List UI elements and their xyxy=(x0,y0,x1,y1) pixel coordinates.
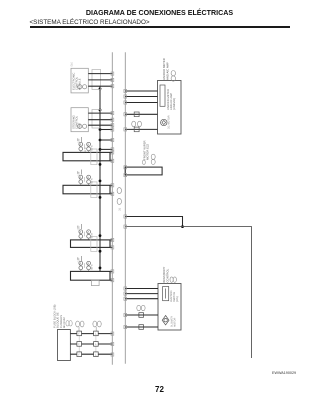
connector squares R1 at trunk xyxy=(124,166,127,177)
U2 inner text xyxy=(170,290,179,302)
wire M2 pin2 xyxy=(88,119,112,121)
svg-text:DC MOTOR: DC MOTOR xyxy=(168,115,171,129)
M2 symbol circles xyxy=(78,124,82,128)
U2 motor symbol xyxy=(162,316,169,325)
wire U2 pin5 xyxy=(125,326,158,328)
U1 label above xyxy=(162,58,169,80)
svg-text:AND A/C AMP: AND A/C AMP xyxy=(165,62,169,80)
connector squares G2 at trunk xyxy=(111,184,114,196)
connector squares G3 at trunk xyxy=(111,238,114,249)
wire U2 pin2 xyxy=(125,293,158,295)
G2 connector bracket xyxy=(91,182,97,198)
svg-text:W B: W B xyxy=(84,147,87,152)
connector squares G4 at trunk xyxy=(111,270,114,282)
junction dot branch A xyxy=(181,225,184,228)
R1 label above xyxy=(142,140,149,160)
svg-text:SB W: SB W xyxy=(91,263,94,270)
wire U1 pin5 xyxy=(125,128,157,130)
inline connector on U1 pin5 xyxy=(134,127,139,132)
page number xyxy=(0,385,319,394)
unit U1 combination meter box xyxy=(158,81,182,135)
G1 sensor circles xyxy=(76,137,93,152)
component M1 control unit box xyxy=(71,68,88,93)
fuse squares row2 xyxy=(77,342,98,347)
fuse block label xyxy=(53,304,66,328)
G3 stub label xyxy=(80,224,82,229)
fuse block ovals xyxy=(66,321,69,326)
svg-text:(ON): (ON) xyxy=(176,296,179,302)
wire ground tap below M2 xyxy=(100,129,112,131)
junction dots on daisy-chain xyxy=(99,87,102,269)
G1 bus bar box xyxy=(63,152,110,160)
svg-text:E22: E22 xyxy=(78,171,81,176)
G3 sensor circles xyxy=(76,225,93,240)
wire G1 top edge xyxy=(110,151,112,153)
U1 inner connector rect xyxy=(160,85,165,106)
wire G4 bottom edge xyxy=(110,279,112,281)
wire G2 bottom edge xyxy=(110,193,112,195)
wire M1 pin1 xyxy=(88,73,112,75)
svg-text:CONTROL: CONTROL xyxy=(165,268,169,282)
R1 ovals xyxy=(151,154,155,159)
G2 sensor circles xyxy=(76,170,93,185)
ovals between U1 pin4 and pin5 xyxy=(132,121,136,127)
ground daisy-chain line xyxy=(99,86,101,271)
U2 inner switch rect xyxy=(163,287,169,301)
G1 stub label xyxy=(80,137,82,142)
G4 bus bar box xyxy=(71,271,111,280)
connector squares U1 at trunk xyxy=(124,89,127,131)
header rule xyxy=(30,26,290,28)
svg-text:MOTOR E22: MOTOR E22 xyxy=(146,143,150,160)
fuse squares row3 xyxy=(77,352,98,357)
wire M2 pin3 xyxy=(88,124,112,126)
relay R1 box xyxy=(125,167,162,175)
wire G1 bottom edge xyxy=(110,160,112,162)
U1 buzzer symbol xyxy=(161,119,167,125)
inline connector on U1 pin4 xyxy=(134,112,139,117)
subtitle xyxy=(30,19,150,26)
fuse row 1 wire xyxy=(70,333,112,335)
document code xyxy=(272,371,296,375)
fuse block bracket xyxy=(58,330,71,361)
connector squares U2 at trunk xyxy=(124,287,127,329)
wire G1 tap1 xyxy=(100,139,112,141)
wire branch B to page link xyxy=(125,227,251,358)
svg-text:E24: E24 xyxy=(78,258,81,263)
inline connector on pin4 xyxy=(139,313,144,318)
U1 buzzer text xyxy=(168,115,171,129)
G3 connector bracket xyxy=(91,237,97,252)
M1 symbol circles xyxy=(78,85,82,89)
wire M1 pin2 xyxy=(88,79,112,81)
connector squares M2 at trunk xyxy=(111,112,114,132)
component M2 control unit box xyxy=(71,108,88,132)
fuse F2 ovals xyxy=(93,321,97,327)
M2 connector bracket xyxy=(92,110,101,129)
wire U1 pin1 xyxy=(125,90,157,92)
fuse column link lines xyxy=(78,333,80,356)
G4 stub label xyxy=(80,256,82,261)
G4 sensor circles xyxy=(76,256,93,271)
U2 motor text xyxy=(171,316,177,327)
trunk harness line E (left bus) xyxy=(111,52,113,365)
title xyxy=(0,9,319,17)
svg-text:E23: E23 xyxy=(78,226,81,231)
svg-text:E21: E21 xyxy=(78,138,81,143)
wire U2 pin3 xyxy=(125,298,158,300)
G4 sub connector box xyxy=(91,280,99,285)
wire branch A xyxy=(125,217,182,227)
wire U1 pin4 xyxy=(125,113,157,115)
net label ovals between trunks xyxy=(117,188,121,194)
wire G4 top edge xyxy=(110,270,112,272)
svg-text:31: 31 xyxy=(118,207,121,210)
G2 stub label xyxy=(80,170,82,175)
connector squares G1 at trunk xyxy=(111,138,114,162)
wire G3 bottom edge xyxy=(110,246,112,248)
wire U1 pin3 xyxy=(125,102,157,104)
unit U2 blower unit box xyxy=(158,284,181,331)
U1 inner text xyxy=(167,89,176,110)
wire G2 top edge xyxy=(110,184,112,186)
svg-text:E10: E10 xyxy=(71,61,74,66)
fuse F1 ovals xyxy=(76,321,80,327)
wire G1 tap2 xyxy=(100,148,112,150)
trunk harness line F (right bus) xyxy=(124,52,126,363)
M2 label text xyxy=(73,115,82,129)
connector squares M1 at trunk xyxy=(111,72,114,88)
svg-text:(UNIDAD): (UNIDAD) xyxy=(173,98,176,110)
wire G3 top edge xyxy=(110,239,112,241)
ovals above inline connector xyxy=(137,305,141,310)
fuse row 3 wire xyxy=(70,353,112,355)
connector squares branches at trunk xyxy=(124,215,127,228)
inline connector on pin5 xyxy=(139,325,144,330)
wire M2 pin1 xyxy=(88,112,112,114)
wire U2 pin4 xyxy=(125,314,158,316)
G2 bus bar box xyxy=(63,185,110,194)
connector squares fuse rows at trunk xyxy=(111,332,114,356)
M1 label text xyxy=(73,73,82,90)
M1 connector bracket xyxy=(92,70,101,90)
fuse glyphs xyxy=(78,333,97,357)
wire M1 pin3 xyxy=(88,85,112,87)
wire U1 pin2 xyxy=(125,96,157,98)
G3 bus bar box xyxy=(71,240,111,248)
fuse row 2 wire xyxy=(70,343,112,345)
wire U2 pin1 xyxy=(125,288,158,290)
fuse squares row1 xyxy=(77,331,98,336)
svg-text:M1 E102: M1 E102 xyxy=(63,317,66,328)
G1 connector bracket xyxy=(91,149,97,165)
svg-text:MOTOR: MOTOR xyxy=(174,318,177,327)
U2 label above xyxy=(162,267,169,283)
